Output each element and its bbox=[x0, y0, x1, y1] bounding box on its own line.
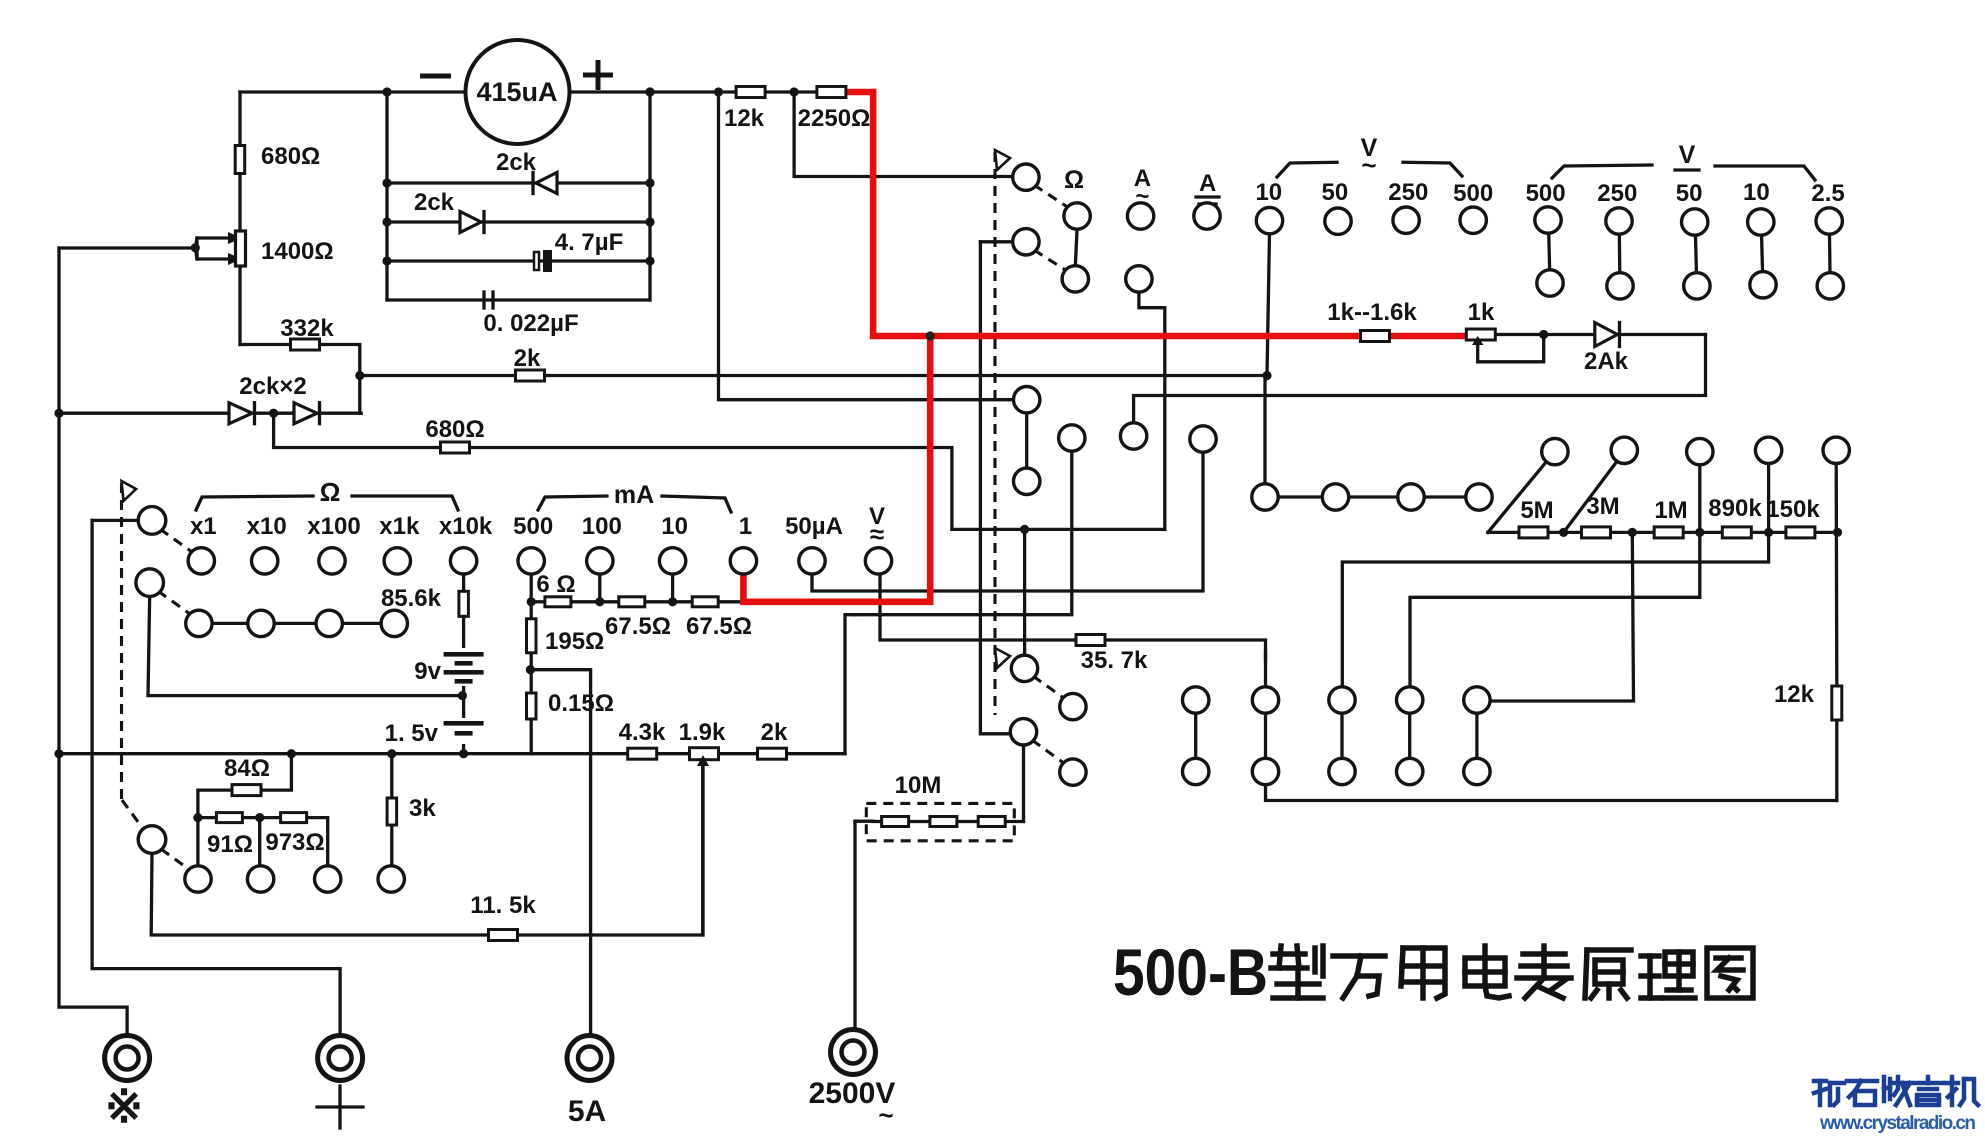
svg-text:5M: 5M bbox=[1520, 497, 1553, 524]
svg-text:2ck: 2ck bbox=[496, 149, 537, 176]
svg-text:12k: 12k bbox=[724, 105, 765, 132]
svg-text:500: 500 bbox=[1526, 180, 1566, 207]
svg-text:~: ~ bbox=[1135, 183, 1149, 210]
svg-text:V: V bbox=[1679, 141, 1696, 169]
svg-text:973Ω: 973Ω bbox=[265, 829, 324, 856]
svg-text:680Ω: 680Ω bbox=[425, 416, 484, 443]
svg-text:1k: 1k bbox=[1468, 299, 1495, 326]
svg-text:11. 5k: 11. 5k bbox=[470, 892, 536, 919]
svg-text:9v: 9v bbox=[414, 658, 441, 685]
svg-text:2.5: 2.5 bbox=[1811, 180, 1844, 207]
svg-text:680Ω: 680Ω bbox=[261, 143, 320, 170]
svg-text:1k--1.6k: 1k--1.6k bbox=[1327, 299, 1417, 326]
svg-text:100: 100 bbox=[582, 513, 622, 540]
svg-text:4. 7µF: 4. 7µF bbox=[555, 229, 624, 256]
svg-text:1: 1 bbox=[739, 513, 752, 540]
svg-text:Ω: Ω bbox=[1064, 166, 1084, 194]
svg-text:10: 10 bbox=[1743, 179, 1770, 206]
svg-text:A: A bbox=[1199, 170, 1216, 197]
svg-text:3k: 3k bbox=[409, 795, 436, 822]
svg-text:500: 500 bbox=[513, 513, 553, 540]
svg-text:2250Ω: 2250Ω bbox=[798, 105, 871, 132]
svg-text:x10k: x10k bbox=[439, 513, 493, 540]
svg-text:84Ω: 84Ω bbox=[224, 755, 270, 782]
svg-text:6 Ω: 6 Ω bbox=[536, 571, 575, 598]
svg-text:91Ω: 91Ω bbox=[207, 831, 253, 858]
svg-text:332k: 332k bbox=[280, 315, 334, 342]
svg-text:2ck: 2ck bbox=[414, 189, 455, 216]
svg-text:500-B: 500-B bbox=[1113, 935, 1268, 1009]
svg-text:250: 250 bbox=[1388, 179, 1428, 206]
svg-text:50: 50 bbox=[1322, 179, 1349, 206]
svg-text:1. 5v: 1. 5v bbox=[385, 720, 439, 747]
svg-text:x1: x1 bbox=[190, 513, 217, 540]
svg-text:150k: 150k bbox=[1766, 496, 1820, 523]
svg-text:1400Ω: 1400Ω bbox=[261, 238, 334, 265]
svg-text:≈: ≈ bbox=[870, 519, 884, 549]
svg-text:1.9k: 1.9k bbox=[679, 719, 726, 746]
svg-text:mA: mA bbox=[614, 481, 654, 509]
svg-text:0.15Ω: 0.15Ω bbox=[548, 690, 614, 717]
svg-text:10: 10 bbox=[1255, 179, 1282, 206]
svg-text:2ck×2: 2ck×2 bbox=[239, 373, 306, 400]
svg-text:12k: 12k bbox=[1774, 681, 1815, 708]
svg-text:67.5Ω: 67.5Ω bbox=[686, 613, 752, 640]
svg-text:x1k: x1k bbox=[379, 513, 420, 540]
svg-text:2Ak: 2Ak bbox=[1584, 348, 1629, 375]
svg-text:250: 250 bbox=[1597, 180, 1637, 207]
svg-text:10M: 10M bbox=[895, 772, 942, 799]
svg-text:85.6k: 85.6k bbox=[381, 585, 442, 612]
svg-text:1M: 1M bbox=[1654, 497, 1687, 524]
svg-text:www.crystalradio.cn: www.crystalradio.cn bbox=[1819, 1113, 1976, 1133]
svg-text:0. 022µF: 0. 022µF bbox=[483, 310, 578, 337]
svg-text:5A: 5A bbox=[568, 1095, 606, 1128]
svg-text:4.3k: 4.3k bbox=[619, 719, 666, 746]
svg-text:x10: x10 bbox=[247, 513, 287, 540]
svg-text:2k: 2k bbox=[514, 345, 541, 372]
svg-text:~: ~ bbox=[1361, 150, 1376, 180]
svg-text:67.5Ω: 67.5Ω bbox=[605, 613, 671, 640]
svg-text:Ω: Ω bbox=[320, 477, 341, 507]
svg-text:~: ~ bbox=[878, 1100, 893, 1130]
svg-text:※: ※ bbox=[105, 1080, 144, 1132]
svg-text:890k: 890k bbox=[1708, 495, 1762, 522]
svg-text:2k: 2k bbox=[761, 719, 788, 746]
svg-text:3M: 3M bbox=[1586, 493, 1619, 520]
svg-text:195Ω: 195Ω bbox=[545, 628, 604, 655]
svg-text:415uA: 415uA bbox=[476, 77, 557, 107]
svg-text:50: 50 bbox=[1676, 180, 1703, 207]
svg-text:10: 10 bbox=[661, 513, 688, 540]
svg-text:50µA: 50µA bbox=[785, 513, 843, 540]
svg-text:500: 500 bbox=[1453, 180, 1493, 207]
svg-text:x100: x100 bbox=[307, 513, 360, 540]
svg-text:35. 7k: 35. 7k bbox=[1081, 647, 1148, 674]
